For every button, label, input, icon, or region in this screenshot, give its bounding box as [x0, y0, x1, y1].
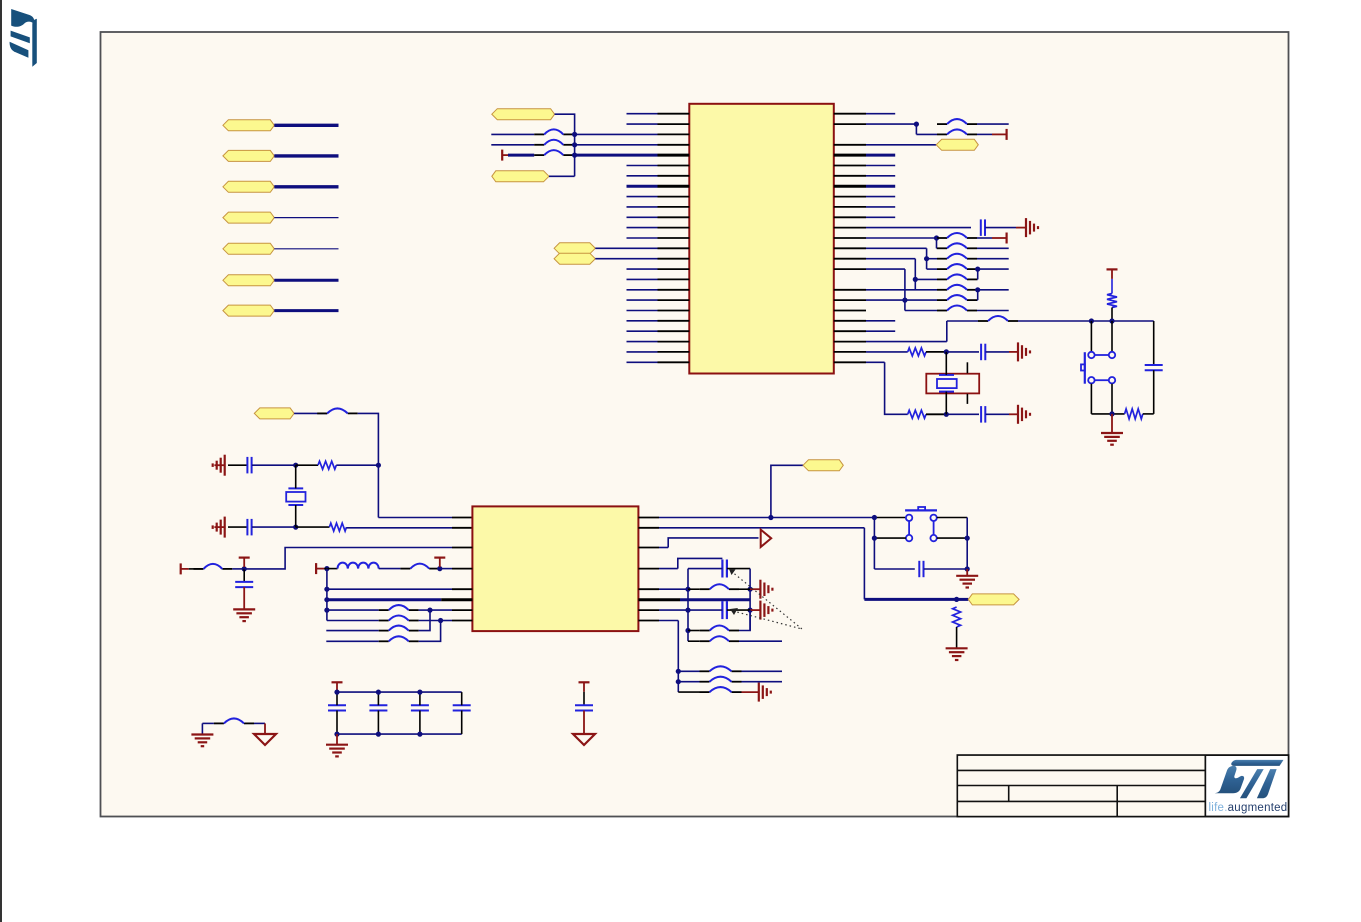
wire: [727, 609, 750, 611]
wire: [678, 558, 723, 568]
wire: [977, 237, 992, 239]
wire: [595, 247, 657, 249]
junction: [324, 608, 329, 613]
wire: [677, 621, 679, 693]
junction: [438, 618, 443, 623]
wire: [638, 527, 659, 529]
ferrite bead FB14: [978, 316, 1018, 321]
wire: [937, 537, 967, 539]
wire: [688, 609, 722, 611]
junction: [293, 463, 298, 468]
ferrite bead FB22: [700, 584, 739, 589]
junction: [768, 515, 773, 520]
capacitor C6: [247, 519, 251, 536]
capacitor C12: [369, 705, 387, 710]
wire: [377, 692, 379, 705]
junction: [954, 597, 959, 602]
wire: [742, 681, 783, 683]
net flag P7: [223, 305, 274, 316]
net flag P3: [223, 181, 274, 192]
wire: [638, 547, 659, 549]
junction: [685, 628, 690, 633]
wire: [678, 670, 699, 672]
net flag right of U1: [936, 139, 978, 150]
wire: [915, 124, 917, 134]
U1 left pin 10: [627, 206, 658, 208]
ground: [956, 576, 978, 588]
U1 left pin 24: [627, 351, 658, 353]
wire: [324, 568, 337, 570]
wire: [916, 133, 937, 135]
wire: [1153, 321, 1155, 365]
wire: [638, 517, 659, 519]
wire: [379, 568, 401, 570]
wire bus: [1018, 320, 1154, 322]
resistor R4: [1125, 409, 1143, 419]
U1 right pin 10 wire: [834, 206, 866, 208]
ferrite bead FB15: [317, 408, 358, 413]
wire: [977, 258, 1009, 260]
wire: [936, 247, 939, 249]
wire: [1111, 414, 1113, 433]
wire stub: [1009, 413, 1018, 415]
junction: [572, 132, 577, 137]
ferrite bead FB5: [937, 129, 977, 134]
U1 right pin 7 wire: [834, 175, 866, 177]
wire: [946, 413, 979, 415]
wire: [228, 526, 247, 528]
ferrite bead FB2: [534, 140, 573, 145]
ferrite bead FB3: [534, 150, 573, 155]
U1 left pin 7: [627, 175, 658, 177]
wire: [926, 351, 946, 353]
capacitor C13: [411, 705, 429, 710]
ground: [760, 580, 772, 599]
junction: [1109, 411, 1114, 416]
wire: [296, 526, 330, 528]
wire: [977, 247, 1009, 249]
wire: [874, 568, 914, 570]
wire: [739, 640, 782, 642]
U1 left pin 23: [627, 341, 658, 343]
junction: [417, 690, 422, 695]
resistor R7: [953, 607, 961, 627]
U1 left pin 1: [627, 113, 658, 115]
wire: [295, 465, 297, 488]
U1 left pin 17: [627, 278, 658, 280]
resistor R3: [1107, 294, 1117, 308]
U1 right pin 12 wire: [834, 227, 866, 229]
wire: [508, 154, 534, 157]
wire to U2 pin2: [347, 527, 453, 529]
junction: [975, 267, 980, 272]
ground: [326, 745, 348, 757]
power tap VDD: [1107, 269, 1118, 279]
crystal case pin line: [966, 362, 968, 373]
wire stub: [742, 691, 759, 693]
wire to flag: [771, 465, 803, 517]
wire: [977, 123, 1009, 125]
wire stub: [214, 526, 224, 528]
ground: [1018, 342, 1030, 361]
IC U2: [472, 506, 638, 631]
wire: [336, 734, 338, 745]
ferrite bead FB24: [700, 636, 739, 641]
wire: [874, 537, 906, 539]
wire: [243, 587, 245, 609]
junction: [242, 566, 247, 571]
wire: [926, 248, 928, 269]
capacitor C3: [981, 406, 985, 423]
ground: [1026, 218, 1038, 237]
wire: [327, 620, 379, 622]
wire: [924, 568, 967, 570]
wire: [834, 258, 866, 260]
resistor R6: [329, 523, 346, 531]
wire stub: [1009, 351, 1018, 353]
junction: [914, 122, 919, 127]
net stub: [992, 133, 1007, 135]
wire stub: [1016, 227, 1026, 229]
U1 left pin 2: [627, 123, 658, 125]
wire: [914, 259, 916, 290]
wire: [688, 640, 700, 642]
net flag VDD_IN: [254, 408, 294, 419]
wire: [977, 269, 979, 279]
junction: [685, 587, 690, 592]
power tap: [434, 558, 445, 568]
net flag BOOT: [968, 594, 1019, 605]
wire: [294, 412, 327, 414]
net flag B: [554, 253, 595, 264]
net stub VBUS: [502, 150, 510, 161]
wire rail: [326, 569, 328, 621]
ground: [233, 609, 255, 621]
wire: [1090, 384, 1092, 414]
wire: [326, 640, 378, 642]
wire: [461, 711, 463, 735]
wire: [638, 620, 659, 622]
wire: [742, 670, 783, 672]
wire: [202, 722, 214, 724]
ferrite bead FB13: [937, 306, 977, 311]
ferrite bead FB16: [194, 564, 233, 569]
U1 right pin 1 wire: [834, 113, 866, 115]
U1 left pin 13: [627, 237, 658, 239]
wire: [986, 413, 1009, 415]
ground: [946, 648, 968, 660]
wire: [1111, 321, 1113, 352]
ferrite bead FB10: [937, 274, 977, 279]
wire: [228, 464, 247, 466]
wire: [977, 133, 992, 135]
wire: [252, 526, 296, 528]
title block: [957, 755, 1288, 816]
wire: [461, 692, 463, 705]
junction: [965, 536, 970, 541]
wire: [926, 413, 946, 415]
ferrite bead FB19: [379, 616, 419, 621]
wire: [688, 588, 700, 590]
wire: [976, 278, 979, 280]
wire thick: [327, 598, 441, 601]
ferrite bead FB20: [379, 626, 419, 631]
wire: [978, 268, 1009, 270]
wire: [358, 413, 379, 517]
wire: [326, 630, 378, 632]
U1 right pin 6 wire: [834, 165, 866, 167]
chassis ground triangle: [573, 734, 595, 745]
junction: [376, 690, 381, 695]
wire: [1153, 370, 1155, 414]
wire: [727, 568, 750, 570]
ferrite bead FB8: [937, 254, 977, 259]
wire: [232, 568, 244, 570]
junction: [1089, 318, 1094, 323]
junction: [924, 256, 929, 261]
wire: [834, 289, 866, 291]
wire: [327, 588, 452, 590]
wire: [834, 237, 866, 239]
wire: [936, 238, 938, 248]
wire: [336, 692, 338, 705]
wire: [937, 517, 967, 519]
ferrite bead FB6: [937, 233, 977, 238]
push button SW1: [1081, 352, 1115, 384]
wire flag2 to rail: [549, 175, 575, 177]
capacitor C9: [722, 560, 727, 578]
wire thick: [957, 598, 969, 601]
wire: [678, 681, 699, 683]
wire: [327, 609, 379, 611]
junction: [324, 587, 329, 592]
junction: [676, 679, 681, 684]
U1 left pin 11: [627, 216, 658, 218]
junction: [437, 566, 442, 571]
wire: [668, 538, 758, 548]
wire: [927, 268, 937, 270]
wire: [1111, 384, 1113, 414]
net flag top (USB) pointing left: [492, 109, 555, 120]
wire: [573, 154, 574, 157]
wire: [452, 547, 472, 549]
capacitor C10: [722, 601, 727, 619]
wire: [595, 258, 657, 260]
wire bottom rail: [337, 733, 462, 735]
ferrite bead FB27: [700, 687, 742, 692]
IC U1: [689, 104, 834, 374]
net stub VDD2: [316, 563, 324, 574]
capacitor C1: [981, 219, 985, 236]
ferrite bead FB11: [937, 285, 977, 290]
wire: [687, 569, 689, 642]
wire: [956, 627, 958, 648]
U1 left pin 25: [627, 361, 658, 363]
U1 right pin 21 wire: [834, 320, 866, 322]
net flag RESET: [803, 460, 843, 471]
wire: [491, 133, 534, 135]
ST logo (top-left, rotated): [10, 9, 37, 67]
resistor R1: [908, 348, 926, 356]
title block cells: [958, 756, 1204, 816]
wire: [491, 144, 534, 146]
net flag P1: [223, 120, 274, 131]
ferrite bead FB28: [214, 718, 254, 723]
wire to U2 pin1: [378, 517, 452, 519]
power tap: [239, 558, 250, 568]
junction: [685, 608, 690, 613]
crystal Y1: [926, 374, 979, 394]
U1 right pin 5 wire: [834, 154, 866, 157]
annotation dotted leader lines: [729, 569, 802, 629]
wire: [419, 621, 441, 642]
wire: [419, 609, 430, 611]
wire: [915, 278, 937, 280]
wire: [274, 248, 338, 250]
wire: [439, 568, 452, 570]
wire to U1: [575, 154, 658, 157]
resistor R5: [318, 461, 336, 469]
wire: [274, 154, 338, 157]
wire: [986, 351, 1009, 353]
wire: [189, 568, 204, 570]
ferrite bead FB23: [700, 626, 739, 631]
junction: [975, 287, 980, 292]
wire: [1111, 308, 1113, 322]
capacitor C2: [981, 344, 985, 361]
wire bus: [947, 320, 978, 322]
wire: [274, 279, 338, 282]
junction: [944, 412, 949, 417]
wire: [976, 268, 979, 270]
wire: [419, 620, 441, 622]
wire: [1111, 279, 1113, 294]
net flag P4: [223, 212, 274, 223]
wire: [274, 185, 338, 188]
wire: [430, 609, 452, 611]
wire to U1: [575, 144, 658, 146]
junction: [872, 536, 877, 541]
wire: [834, 144, 866, 146]
wire: [419, 711, 421, 735]
power tap: [332, 682, 343, 692]
wire: [336, 464, 378, 466]
ground: [213, 455, 225, 476]
wire: [834, 351, 866, 353]
wire: [976, 289, 979, 291]
junction: [293, 525, 298, 530]
wire: [863, 528, 865, 600]
open triangle marker: [761, 530, 772, 547]
ferrite bead FB4: [937, 119, 977, 124]
wire: [834, 310, 866, 312]
capacitor C5: [247, 457, 251, 474]
wire: [834, 268, 866, 270]
ground: [759, 683, 771, 702]
svg-text:life.augmented: life.augmented: [1209, 802, 1288, 814]
ferrite bead FB18: [379, 605, 419, 610]
junction: [572, 142, 577, 147]
wire top rail: [337, 691, 462, 693]
wire: [252, 464, 296, 466]
wire: [946, 351, 979, 353]
ferrite bead FB26: [700, 677, 742, 682]
U1 left pin 9: [627, 196, 658, 198]
wire: [583, 692, 585, 706]
junction: [324, 597, 329, 602]
wire U1 pin to bus: [834, 341, 866, 343]
wire: [688, 568, 722, 570]
wire: [573, 144, 574, 146]
junction: [934, 235, 939, 240]
U1 left pin 8: [627, 185, 658, 188]
capacitor C11: [328, 705, 346, 710]
wire: [927, 258, 937, 260]
net flag A: [554, 243, 595, 254]
net flag P5: [223, 243, 274, 254]
wire crystal top: [945, 352, 947, 375]
U1 right pin 11 wire: [834, 216, 866, 218]
capacitor C15: [575, 705, 593, 710]
wire: [873, 518, 875, 570]
junction: [913, 277, 918, 282]
U1 left pin 20: [627, 310, 658, 312]
ferrite bead FB12: [937, 295, 977, 300]
wire: [977, 310, 1009, 312]
wire: [966, 518, 968, 570]
junction: [572, 153, 577, 158]
wire: [739, 588, 750, 590]
wire thick: [864, 598, 956, 601]
U1 right pin 2 wire: [834, 123, 866, 125]
U1 left pin 19: [627, 299, 658, 301]
wire: [1143, 413, 1154, 415]
wire: [336, 711, 338, 735]
schematic sheet frame: [101, 32, 1289, 817]
wire: [441, 620, 452, 622]
U1 left pin 6: [627, 165, 658, 167]
ground: [191, 735, 213, 747]
wire: [834, 299, 866, 301]
wire: [264, 723, 266, 734]
wire: [678, 691, 699, 693]
wire: [1091, 413, 1124, 415]
junction: [676, 669, 681, 674]
inductor L1: [338, 563, 379, 569]
wire crystal bottom: [945, 392, 947, 415]
junction: [427, 608, 432, 613]
wire: [419, 610, 430, 631]
ferrite bead FB9: [937, 264, 977, 269]
wire stub: [214, 464, 224, 466]
power tap: [579, 682, 590, 692]
net flag P2: [223, 150, 274, 161]
junction: [872, 515, 877, 520]
wire: [638, 588, 659, 590]
U1 left pin 12: [627, 227, 658, 229]
U1 right pin 8 wire: [834, 185, 866, 188]
wire: [274, 124, 338, 127]
wire: [904, 269, 906, 310]
page left edge line: [0, 0, 2, 922]
capacitor C7: [235, 582, 253, 587]
capacitor C14: [453, 705, 471, 710]
wire: [583, 711, 585, 735]
wire thick: [638, 598, 680, 601]
net stub VDD: [181, 563, 189, 574]
wire: [244, 548, 452, 569]
wire: [834, 361, 866, 363]
